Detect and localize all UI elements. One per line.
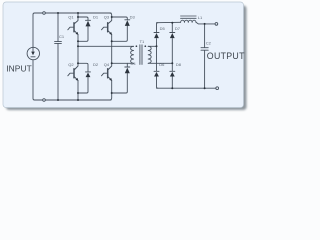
svg-text:D1: D1 (93, 15, 99, 20)
svg-text:T1: T1 (140, 39, 145, 44)
svg-text:Q4: Q4 (104, 62, 110, 67)
svg-text:C1: C1 (59, 34, 65, 39)
svg-text:D4: D4 (131, 61, 137, 66)
svg-text:OUTPUT: OUTPUT (207, 51, 245, 61)
svg-text:D6: D6 (159, 62, 165, 67)
svg-text:Q3: Q3 (104, 15, 110, 20)
svg-text:L1: L1 (198, 15, 203, 20)
svg-text:C2: C2 (206, 40, 212, 45)
svg-text:D5: D5 (160, 26, 166, 31)
svg-text:D3: D3 (130, 15, 136, 20)
svg-text:Q2: Q2 (68, 62, 74, 67)
svg-text:INPUT: INPUT (6, 64, 32, 74)
svg-text:D2: D2 (93, 62, 99, 67)
svg-text:D7: D7 (175, 26, 181, 31)
svg-text:D8: D8 (176, 62, 182, 67)
svg-text:Q1: Q1 (68, 15, 74, 20)
